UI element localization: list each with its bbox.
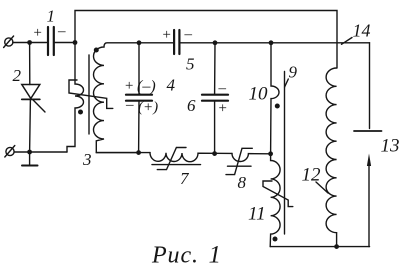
ground [22, 152, 38, 166]
node winding 11 top [268, 151, 273, 156]
winding 10 [271, 43, 279, 154]
node C6 top [213, 40, 218, 45]
saturable reactor 8 winding [232, 153, 271, 161]
winding 12 [326, 68, 337, 247]
saturable reactor 7 winding [150, 153, 232, 162]
svg-text:+: + [33, 25, 43, 41]
svg-text:+: + [162, 27, 172, 43]
saturation mark reactor 7 [157, 148, 186, 170]
svg-text:13: 13 [381, 136, 400, 157]
bottom bus: secondary to L7 [96, 152, 150, 154]
node C4 bottom [136, 150, 141, 155]
transformer 3 secondary winding [94, 43, 140, 153]
wire C1 to node [55, 42, 75, 44]
node C6 bottom [212, 151, 217, 156]
svg-text:–: – [184, 27, 193, 43]
svg-text:–: – [125, 97, 134, 113]
node winding 10 top [269, 40, 274, 45]
saturable reactor 7 core [152, 164, 201, 166]
wire secondary top to C5 [139, 42, 173, 44]
svg-text:6: 6 [187, 96, 196, 115]
svg-text:+: + [124, 78, 134, 94]
svg-text:–: – [218, 81, 227, 97]
capacitor 6 branch wire top [214, 43, 216, 94]
svg-text:1: 1 [209, 242, 222, 266]
transformer core 9 [284, 72, 286, 235]
svg-text:5: 5 [186, 55, 195, 74]
saturable reactor 8 core [228, 165, 252, 167]
svg-text:11: 11 [248, 204, 266, 225]
polarity dot transformer 3 primary [78, 110, 83, 115]
capacitor 4 branch wire bottom [138, 101, 140, 153]
capacitor 6 branch wire bottom [214, 101, 216, 154]
terminal input top [4, 36, 14, 48]
svg-text:2: 2 [13, 66, 22, 85]
polarity dot winding 11 [273, 237, 278, 242]
svg-text:7: 7 [180, 169, 190, 188]
svg-text:(+): (+) [138, 100, 158, 116]
spark gap 13 bottom electrode [367, 154, 371, 247]
wire diode 2 to bottom node [29, 99, 32, 152]
svg-text:Рис.: Рис. [151, 243, 199, 266]
wire top bus to winding 12 [75, 11, 337, 69]
capacitor 6 [202, 95, 228, 101]
node bottom left [27, 150, 32, 155]
node at diode 2 top [27, 40, 32, 45]
wire C5 to right [181, 42, 370, 44]
terminal input bottom [5, 146, 15, 158]
svg-text:3: 3 [82, 150, 92, 169]
winding 11 [270, 154, 280, 247]
saturation mark winding 11 [263, 181, 293, 207]
polarity dot winding 10 [275, 104, 280, 109]
saturation mark reactor 8 [226, 148, 252, 174]
svg-text:10: 10 [249, 84, 269, 105]
transformer 3 primary winding [67, 43, 84, 153]
leader line label 9 [285, 79, 289, 87]
svg-text:+: + [218, 101, 228, 117]
bottom right bus [270, 246, 369, 248]
svg-text:8: 8 [238, 173, 247, 192]
wire input top to C1 [13, 42, 47, 44]
diode 2 (dynistor) [22, 85, 45, 113]
capacitor 4 [126, 95, 152, 101]
leader line label 14 [342, 38, 353, 45]
svg-text:–: – [57, 24, 66, 40]
leader line label 12 [316, 182, 328, 193]
wire node to diode 2 [29, 43, 31, 85]
capacitor 4 branch wire top [138, 43, 140, 94]
capacitor 1 [48, 27, 54, 55]
capacitor 5 [174, 30, 179, 54]
svg-text:(–): (–) [137, 78, 156, 95]
transformer 3 core [88, 55, 90, 134]
node winding 12 bottom [334, 244, 339, 249]
spark gap 13 top electrode [354, 43, 382, 131]
svg-text:12: 12 [302, 165, 322, 186]
node C4 top [137, 40, 142, 45]
saturation mark transformer 3 [69, 80, 113, 108]
svg-text:4: 4 [167, 76, 176, 95]
polarity dot transformer 3 secondary [94, 48, 99, 53]
svg-text:14: 14 [353, 21, 371, 41]
svg-text:1: 1 [47, 7, 56, 26]
node at transformer 3 primary top [73, 40, 78, 45]
svg-text:9: 9 [289, 63, 298, 82]
wire input bottom to node [14, 151, 67, 153]
